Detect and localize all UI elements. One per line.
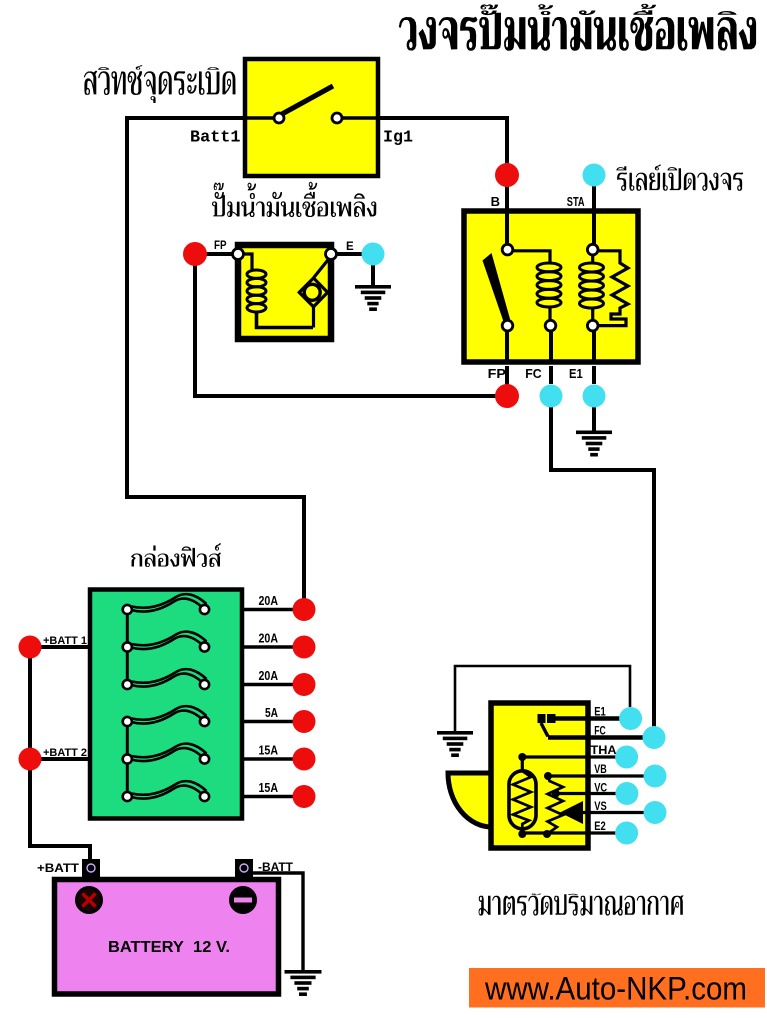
svg-text:5A: 5A — [265, 706, 278, 720]
svg-text:E1: E1 — [594, 707, 606, 719]
svg-text:VC: VC — [594, 783, 607, 795]
svg-text:VS: VS — [594, 801, 607, 813]
svg-text:www.Auto-NKP.com: www.Auto-NKP.com — [484, 971, 747, 1007]
svg-text:+BATT 2: +BATT 2 — [43, 747, 87, 759]
svg-text:BATTERY 12 V.: BATTERY 12 V. — [108, 939, 230, 956]
svg-text:20A: 20A — [259, 594, 279, 608]
svg-text:FP: FP — [488, 366, 507, 381]
svg-text:VB: VB — [594, 764, 607, 776]
svg-text:15A: 15A — [259, 781, 279, 795]
svg-text:+BATT: +BATT — [37, 863, 79, 875]
svg-text:E2: E2 — [594, 821, 606, 833]
svg-text:THA: THA — [591, 745, 617, 757]
svg-text:+BATT 1: +BATT 1 — [43, 635, 87, 647]
svg-text:Ig1: Ig1 — [383, 129, 413, 148]
svg-text:E1: E1 — [569, 366, 583, 381]
svg-text:B: B — [491, 194, 500, 209]
svg-text:Batt1: Batt1 — [190, 129, 241, 148]
svg-text:20A: 20A — [259, 669, 279, 683]
svg-text:STA: STA — [567, 194, 585, 209]
svg-text:15A: 15A — [259, 744, 279, 758]
svg-text:FC: FC — [525, 366, 542, 381]
svg-text:FC: FC — [594, 726, 606, 738]
svg-text:20A: 20A — [259, 632, 279, 646]
svg-text:-BATT: -BATT — [258, 862, 293, 874]
svg-text:FP: FP — [214, 240, 227, 252]
svg-text:E: E — [346, 241, 354, 253]
